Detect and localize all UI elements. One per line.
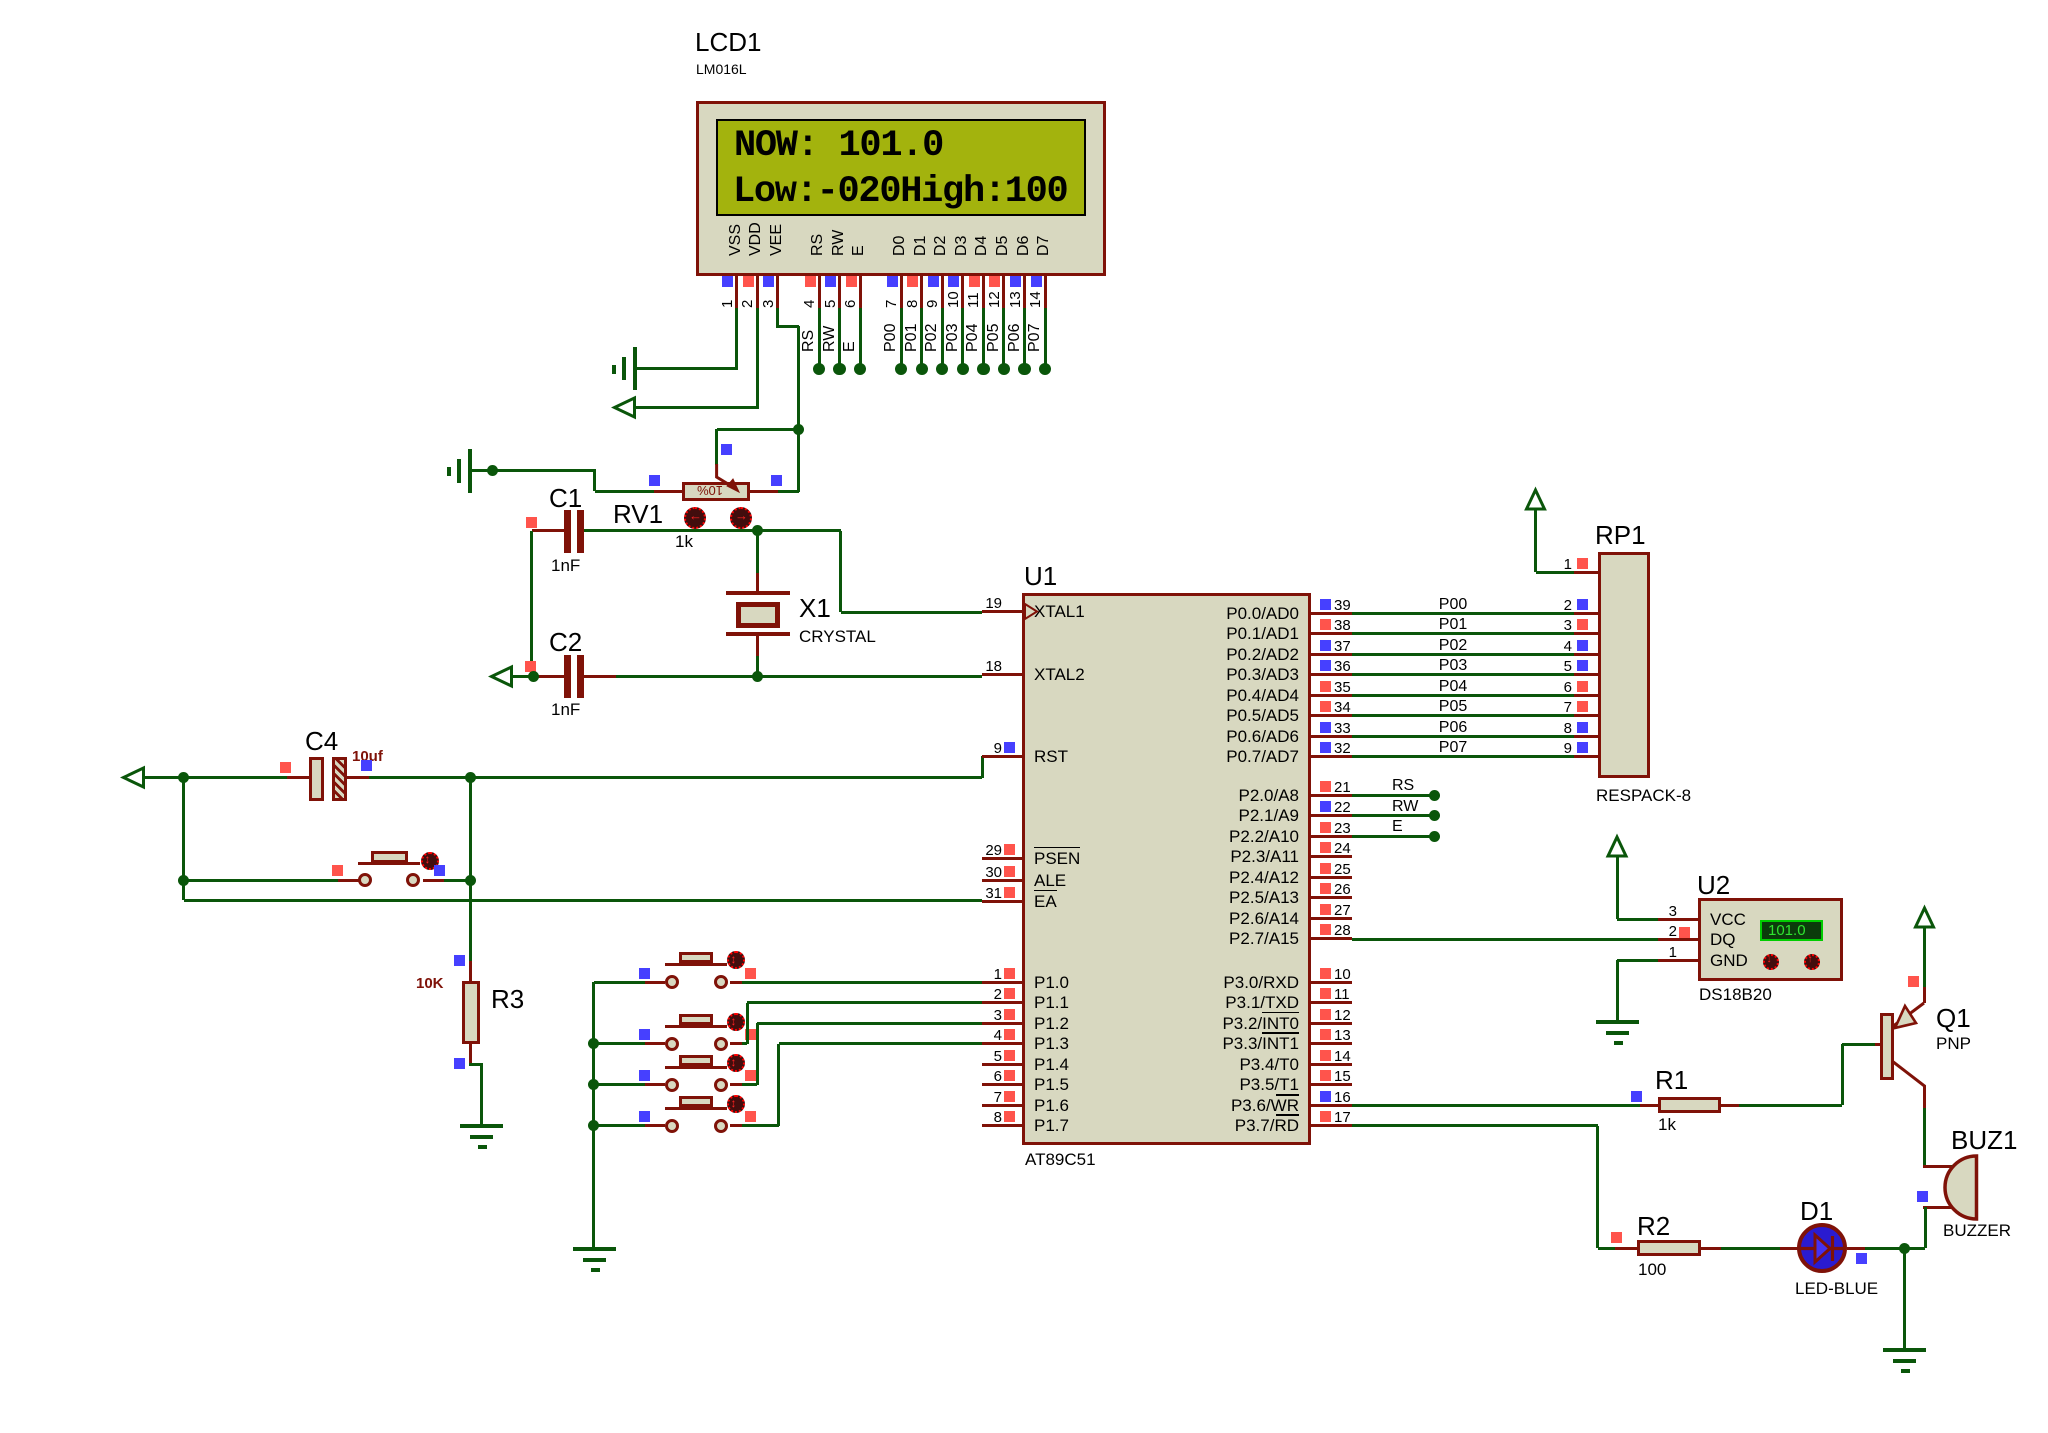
wire button 1 left <box>594 981 645 984</box>
ground symbol (buttons) <box>573 1247 616 1251</box>
junction above reset button <box>465 772 476 783</box>
U1 pin 10 (P3.0/RXD) <box>1311 981 1352 984</box>
wire buzzer bottom to junction <box>1924 1207 1927 1248</box>
U1 pin 19 (XTAL1) <box>982 610 1022 613</box>
power arrow C2 (left pointing) <box>492 667 512 686</box>
U1 pin 29 (PSEN) <box>982 857 1022 860</box>
RV1 adjust knob up <box>730 507 752 529</box>
RP1 pin 9 <box>1574 755 1598 758</box>
Q1 emitter <box>1892 1003 1924 1028</box>
state square Q1 <box>1908 976 1919 987</box>
junction reset button left <box>178 875 189 886</box>
junction reset button right <box>465 875 476 886</box>
wire C1 left to C2 left <box>530 531 533 677</box>
wire U2 GND to ground <box>1617 959 1658 962</box>
push button (reset) <box>338 879 359 882</box>
resistor R1 <box>1640 1104 1658 1107</box>
wire button 4 to P1.3 <box>742 1124 779 1127</box>
wire LCD pin 8 to terminal P01 <box>920 308 923 365</box>
push button key1 <box>645 981 665 984</box>
wire down to XTAL1 <box>839 531 842 613</box>
wire crystal top lead <box>756 531 759 574</box>
wire LCD VDD pin2 to power <box>756 308 759 408</box>
U1 pin 2 (P1.1) <box>982 1001 1022 1004</box>
XTAL1 clock marker <box>1025 604 1037 619</box>
transistor Q1 (PNP) <box>1875 1043 1883 1046</box>
wire reset button right to junction <box>444 879 471 882</box>
net label P02 <box>1439 637 1467 655</box>
junction button row 2 <box>588 1038 599 1049</box>
U1 pin 26 (P2.5/A13) <box>1311 896 1352 899</box>
Q1 emitter pin segment <box>1923 987 1926 1003</box>
junction node VEE net <box>793 424 804 435</box>
U2 temperature display <box>1760 920 1823 941</box>
junction button row 4 <box>588 1120 599 1131</box>
ground symbol (oscillator) <box>468 449 472 493</box>
power arrow VDD (left pointing) <box>615 398 635 417</box>
state square R1 <box>1631 1091 1642 1102</box>
LCD1 pin 1 (VSS) <box>728 224 744 256</box>
resistor R3 value 10K <box>416 975 444 992</box>
U1 pin 22 (P2.1/A9) <box>1311 814 1352 817</box>
wire button 2 to P1.1 <box>742 1042 747 1045</box>
U1 pin 17 (P3.7/RD) <box>1311 1124 1352 1127</box>
state square BUZ1 <box>1917 1191 1928 1202</box>
U1 pin 16 (P3.6/WR) <box>1311 1104 1352 1107</box>
power arrow RST left <box>124 768 144 787</box>
terminal P02 below LCD <box>936 363 948 375</box>
terminal E below LCD <box>854 363 866 375</box>
U1 pin 5 (P1.4) <box>982 1063 1022 1066</box>
transistor Q1 reference label <box>1936 1004 1971 1032</box>
U1 pin 7 (P1.6) <box>982 1104 1022 1107</box>
power arrow Q1 (up) <box>1916 908 1934 927</box>
U1 pin 39 (P0.0/AD0) <box>1311 612 1352 615</box>
junction button row 3 <box>588 1079 599 1090</box>
ground symbol (LCD VSS) <box>633 347 637 390</box>
U1 pin 21 (P2.0/A8) <box>1311 794 1352 797</box>
wire power arrow to C2 junction <box>511 675 533 678</box>
RP1 part number RESPACK-8 <box>1596 786 1691 805</box>
RP1 pin 5 <box>1574 673 1598 676</box>
wire buttons common vertical to ground <box>592 982 595 1247</box>
RP1 pin 8 <box>1574 735 1598 738</box>
wire button 4 left <box>594 1124 645 1127</box>
LCD display LCD1 LM016L body <box>696 101 1106 276</box>
resistor R3 <box>469 961 472 982</box>
U1 pin 32 (P0.7/AD7) <box>1311 755 1352 758</box>
U1 pin 37 (P0.2/AD2) <box>1311 653 1352 656</box>
wire RST step up to pin 9 <box>981 756 984 778</box>
wire LCD VSS pin1 to ground <box>735 308 738 368</box>
terminal RW below LCD <box>833 363 845 375</box>
terminal P07 below LCD <box>1039 363 1051 375</box>
buzzer BUZ1 reference label <box>1951 1126 2017 1154</box>
wire P02 net U1 to RP1 <box>1352 653 1574 656</box>
wire P05 net U1 to RP1 <box>1352 714 1574 717</box>
U1 pin 9 (RST) <box>982 755 1022 758</box>
state squares R3 <box>454 955 465 966</box>
wire P07 net U1 to RP1 <box>1352 755 1574 758</box>
wire LCD pin 5 to terminal RW <box>838 308 841 365</box>
net label P05 <box>1439 698 1467 716</box>
U1 pin 25 (P2.4/A12) <box>1311 876 1352 879</box>
U1 pin 27 (P2.6/A14) <box>1311 917 1352 920</box>
LCD1 pin 12 (D5) <box>995 236 1011 256</box>
U1 pin 8 (P1.7) <box>982 1124 1022 1127</box>
LCD1 pin 14 (D7) <box>1036 236 1052 256</box>
LED D1 reference label <box>1800 1197 1833 1225</box>
microcontroller U1 AT89C51 body <box>1022 593 1311 1145</box>
net label P03 <box>1439 657 1467 675</box>
junction RST/EA vertical left <box>178 772 189 783</box>
RP1 pin 4 <box>1574 653 1598 656</box>
resistor pack RP1 RESPACK-8 body <box>1598 552 1650 778</box>
net label P06 <box>1439 719 1467 737</box>
microcontroller U1 reference label <box>1024 562 1057 590</box>
LCD screen <box>716 119 1086 216</box>
C2 value 1nF <box>551 700 580 719</box>
junction at oscillator ground <box>487 465 498 476</box>
LCD1 pin 2 (VDD) <box>748 222 764 256</box>
capacitor C1 label <box>549 484 582 512</box>
button key1 actuator <box>727 951 745 969</box>
U2 adjust knob up <box>1804 954 1820 970</box>
capacitor C4 label <box>305 727 338 755</box>
X1 value CRYSTAL <box>799 627 876 646</box>
wire XTAL2 row <box>616 675 983 678</box>
transistor Q1 type PNP <box>1936 1034 1971 1053</box>
LCD1 reference label <box>695 28 761 56</box>
LCD1 pin 13 (D6) <box>1016 236 1032 256</box>
state square C2 <box>525 661 536 672</box>
U1 pin 15 (P3.5/T1) <box>1311 1083 1352 1086</box>
terminal P06 below LCD <box>1018 363 1030 375</box>
wire power to U2 VCC <box>1616 856 1619 919</box>
wire left vertical to reset button and EA <box>182 778 185 901</box>
U1 pin 28 (P2.7/A15) <box>1311 937 1352 940</box>
push button key2 <box>645 1042 665 1045</box>
RP1 pin 1 <box>1574 571 1598 574</box>
terminal P05 below LCD <box>998 363 1010 375</box>
wire P06 net U1 to RP1 <box>1352 735 1574 738</box>
net label P01 <box>1439 616 1467 634</box>
terminal RS below LCD <box>813 363 825 375</box>
wire junction to reset button <box>184 879 339 882</box>
U2 adjust knob down <box>1763 954 1779 970</box>
terminal P04 below LCD <box>977 363 989 375</box>
wire P03 net U1 to RP1 <box>1352 673 1574 676</box>
U1 pin 35 (P0.4/AD4) <box>1311 694 1352 697</box>
state square D1 <box>1856 1253 1867 1264</box>
LCD1 part number LM016L <box>696 61 747 77</box>
wire RV1 right to VEE junction <box>778 490 799 493</box>
capacitor C2 label <box>549 628 582 656</box>
wire P01 net U1 to RP1 <box>1352 632 1574 635</box>
wire U1 P3.7 to R2 <box>1352 1124 1598 1127</box>
U1 pin 14 (P3.4/T0) <box>1311 1063 1352 1066</box>
RV1 value 1k <box>675 532 693 551</box>
C1 value 1nF <box>551 556 580 575</box>
net label E <box>1392 818 1403 836</box>
wire button 3 to P1.2 <box>742 1083 757 1086</box>
terminal E <box>1429 831 1440 842</box>
push button key3 <box>645 1083 665 1086</box>
junction at buzzer/LED/ground <box>1899 1243 1910 1254</box>
U1 pin 1 (P1.0) <box>982 981 1022 984</box>
net label P04 <box>1439 678 1467 696</box>
RP1 pin 2 <box>1574 612 1598 615</box>
potentiometer RV1 label <box>613 500 663 528</box>
power arrow U2 (up) <box>1608 837 1626 856</box>
LCD1 pin 3 (VEE) <box>769 224 785 256</box>
net label P07 <box>1439 739 1467 757</box>
RV1 track text 10% <box>697 483 723 498</box>
LCD text line 1: NOW: 101.0 <box>734 128 943 165</box>
wire power to Q1 emitter <box>1923 927 1926 988</box>
LCD1 pin 6 (E) <box>851 245 867 256</box>
wire RW net from U1 P2.1 <box>1352 814 1430 817</box>
U1 pin 31 (EA) <box>982 900 1022 903</box>
wire LCD pin 7 to terminal P00 <box>900 308 903 365</box>
U1 pin 38 (P0.1/AD1) <box>1311 632 1352 635</box>
X1 label <box>799 594 831 622</box>
wire LCD VEE pin3 to RV1 wiper net <box>776 308 779 326</box>
LCD1 pin 5 (RW) <box>831 230 847 256</box>
wire LCD pin 4 to terminal RS <box>818 308 821 365</box>
RP1 pin 7 <box>1574 714 1598 717</box>
U1 pin 30 (ALE) <box>982 879 1022 882</box>
RP1 pin 3 <box>1574 632 1598 635</box>
state squares button key3 <box>639 1070 650 1081</box>
U1 pin 34 (P0.5/AD5) <box>1311 714 1352 717</box>
C4 value 10uf <box>352 748 383 765</box>
state squares button key4 <box>639 1111 650 1122</box>
LCD1 pin 8 (D1) <box>913 236 929 256</box>
wire LCD pin 12 to terminal P05 <box>1002 308 1005 365</box>
state square R2 <box>1611 1232 1622 1243</box>
wire RS net from U1 P2.0 <box>1352 794 1430 797</box>
state squares RV1 <box>649 475 660 486</box>
junction C2 left <box>528 671 539 682</box>
D1 diode symbol <box>1799 1235 1845 1262</box>
LCD1 pin 10 (D3) <box>954 236 970 256</box>
button key2 actuator <box>727 1013 745 1031</box>
LCD1 pin 4 (RS) <box>810 234 826 256</box>
RV1 leads <box>654 490 682 493</box>
ground symbol (R3) <box>460 1124 503 1128</box>
wire LCD pin 9 to terminal P02 <box>941 308 944 365</box>
net label RW <box>1392 798 1418 816</box>
button key4 actuator <box>727 1095 745 1113</box>
terminal RS <box>1429 790 1440 801</box>
RV1 wiper <box>717 464 739 492</box>
temperature sensor U2 reference label <box>1697 871 1730 899</box>
wire button 1 to P1.0 <box>742 981 982 984</box>
button key3 actuator <box>727 1054 745 1072</box>
R3 reference label <box>491 985 524 1013</box>
state squares button key1 <box>639 968 650 979</box>
R1 value 1k <box>1658 1115 1676 1134</box>
resistor pack RP1 reference label <box>1595 521 1646 549</box>
U2 pin 3 (VCC) <box>1658 918 1698 921</box>
wire crystal bottom to XTAL2 row <box>756 656 759 676</box>
wire P04 net U1 to RP1 <box>1352 694 1574 697</box>
U1 part number AT89C51 <box>1025 1150 1096 1169</box>
BUZ1 part label BUZZER <box>1943 1221 2011 1240</box>
LED D1 (LED-BLUE) <box>1780 1247 1798 1250</box>
wire junction to ground <box>1903 1248 1906 1348</box>
wire R1 to Q1 base <box>1739 1104 1842 1107</box>
U1 pin 24 (P2.3/A11) <box>1311 855 1352 858</box>
ground symbol (U2) <box>1596 1020 1639 1024</box>
resistor R2 <box>1615 1247 1637 1250</box>
wire down to R3 <box>469 778 472 881</box>
LCD1 pin 11 (D4) <box>974 236 990 256</box>
LCD1 pin 7 (D0) <box>892 236 908 256</box>
junction XTAL2 row <box>752 671 763 682</box>
ground symbol (bottom right) <box>1883 1348 1926 1352</box>
wire R3 bottom to ground <box>469 1063 483 1066</box>
resistor R2 reference label <box>1637 1212 1670 1240</box>
wire U1 P3.6 to R1 <box>1352 1104 1640 1107</box>
U1 pin 11 (P3.1/TXD) <box>1311 1001 1352 1004</box>
wire LCD pin 13 to terminal P06 <box>1023 308 1026 365</box>
wire Q1 collector to buzzer <box>1923 1107 1926 1165</box>
wire LCD pin 6 to terminal E <box>859 308 862 365</box>
wire LCD pin 10 to terminal P03 <box>961 308 964 365</box>
terminal P00 below LCD <box>895 363 907 375</box>
wire power arrow to C4 <box>144 776 288 779</box>
net label P00 <box>1439 596 1467 614</box>
wire power to RP1 pin 1 <box>1534 509 1537 572</box>
U1 pin 23 (P2.2/A10) <box>1311 835 1352 838</box>
R2 value 100 <box>1638 1260 1666 1279</box>
reset button actuator <box>421 852 439 870</box>
power arrow RP1 (up) <box>1527 490 1545 509</box>
buzzer body <box>1945 1156 1976 1219</box>
capacitor C2 <box>533 675 564 678</box>
U1 pin 4 (P1.3) <box>982 1042 1022 1045</box>
LCD1 pin 9 (D2) <box>933 236 949 256</box>
terminal P01 below LCD <box>916 363 928 375</box>
resistor R1 reference label <box>1655 1066 1688 1094</box>
RV1 adjust knob down <box>684 507 706 529</box>
temperature sensor U2 DS18B20 body <box>1698 898 1843 981</box>
U1 pin 18 (XTAL2) <box>982 673 1022 676</box>
U1 pin 6 (P1.5) <box>982 1083 1022 1086</box>
terminal RW <box>1429 810 1440 821</box>
wire R2 to D1 <box>1721 1247 1780 1250</box>
wire P00 net U1 to RP1 <box>1352 612 1574 615</box>
net label RS <box>1392 777 1414 795</box>
state squares C4 <box>280 762 291 773</box>
capacitor C4 (electrolytic) <box>287 776 310 779</box>
state squares reset button <box>332 865 343 876</box>
wire LCD pin 11 to terminal P04 <box>982 308 985 365</box>
crystal X1 <box>756 573 759 593</box>
junction crystal top <box>752 525 763 536</box>
U1 pin 36 (P0.3/AD3) <box>1311 673 1352 676</box>
U1 pin 3 (P1.2) <box>982 1022 1022 1025</box>
buzzer BUZ1 <box>1923 1165 1951 1168</box>
wire U1 P2.7 to U2 DQ <box>1352 938 1658 941</box>
wire E net from U1 P2.2 <box>1352 835 1430 838</box>
state squares button key2 <box>639 1029 650 1040</box>
U2 part number DS18B20 <box>1699 985 1772 1004</box>
capacitor C1 <box>532 529 564 532</box>
Q1 collector <box>1892 1061 1925 1108</box>
U1 pin 13 (P3.3/INT1) <box>1311 1042 1352 1045</box>
RP1 pin 6 <box>1574 694 1598 697</box>
wire button 2 left <box>594 1042 645 1045</box>
LCD text line 2: Low:-020High:100 <box>733 174 1067 211</box>
push button key4 <box>645 1124 665 1127</box>
wire C1 right to crystal top / XTAL1 <box>584 529 841 532</box>
U1 pin 33 (P0.6/AD6) <box>1311 735 1352 738</box>
U1 pin 12 (P3.2/INT0) <box>1311 1022 1352 1025</box>
D1 part label LED-BLUE <box>1795 1279 1878 1298</box>
wire button 3 left <box>594 1083 645 1086</box>
potentiometer RV1 body <box>682 482 750 501</box>
U2 pin 1 (GND) <box>1658 959 1698 962</box>
wire ground to RV1 left <box>472 469 596 472</box>
wire VEE junction to RV1 wiper <box>717 428 799 431</box>
state square C1 <box>526 517 537 528</box>
wire C4 right to RST pin <box>369 776 982 779</box>
U2 pin 2 (DQ) <box>1658 938 1698 941</box>
wire LCD pin 14 to terminal P07 <box>1044 308 1047 365</box>
terminal P03 below LCD <box>957 363 969 375</box>
wire D1 to buzzer junction <box>1865 1247 1904 1250</box>
